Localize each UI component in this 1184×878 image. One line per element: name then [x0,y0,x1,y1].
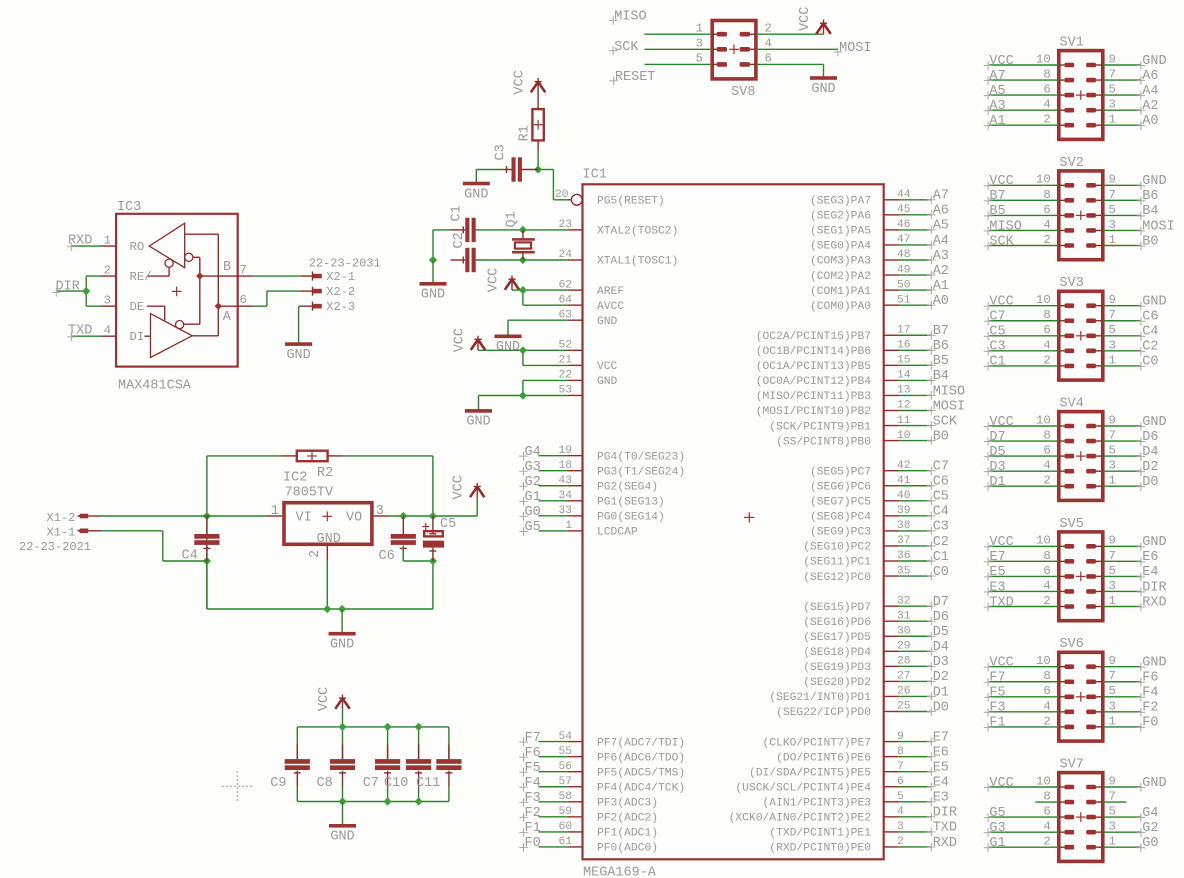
svg-text:MOSI: MOSI [1142,219,1174,234]
IC1 pin 50 (COM1)PA1 [810,279,911,298]
wire net G1 to SV7 [989,846,1059,848]
node F3 label [519,791,541,807]
svg-text:2: 2 [308,550,323,558]
IC1 pin 39 (SEG8)PC4 [810,505,911,524]
svg-text:VCC: VCC [597,361,618,373]
SV1 name label [1060,36,1084,51]
node B7 label [984,189,1006,205]
IC1 pin 37 (SEG10)PC2 [803,535,910,554]
IC1 pin 54 PF7(ADC7/TDI) [558,731,685,750]
wire net F1 to SV6 [989,726,1059,728]
node G1 label [519,490,541,506]
wire net A1 to SV1 [989,124,1059,126]
wire GND stem [341,609,343,632]
IC1 pin 7 (DI/SDA/PCINT5)PE5 [749,761,904,780]
node C2 label [927,535,949,551]
svg-text:F1: F1 [989,716,1005,731]
wire net G3 [539,470,568,472]
svg-text:DIR: DIR [56,279,80,294]
IC1 pin 44 (SEG3)PA7 [810,189,911,208]
IC1 pin 36 (SEG11)PC1 [803,550,911,569]
node GND label [1137,656,1167,672]
svg-text:8: 8 [1043,67,1050,81]
ground symbol pins 22/53 [465,409,492,430]
SV6 pin 4 [1043,699,1074,714]
node GND label [1137,295,1167,311]
svg-text:A3: A3 [989,99,1005,114]
node D1 label [927,685,949,701]
wire net E5 [899,771,931,773]
svg-text:(SEG5)PC7: (SEG5)PC7 [810,466,871,478]
wire net B6 from SV2 [1103,199,1141,201]
svg-text:22-23-2021: 22-23-2021 [19,540,91,554]
svg-text:(RXD/PCINT0)PE0: (RXD/PCINT0)PE0 [769,843,871,855]
svg-text:SCK: SCK [933,414,958,429]
svg-text:C4: C4 [933,505,949,520]
svg-text:X2-1: X2-1 [326,270,355,284]
node RXD label [67,233,92,251]
wire net C0 [899,575,931,577]
junction bypass top rail [384,723,392,731]
SV2 name label [1060,156,1084,171]
junction VCC pins 52/21 [519,346,527,354]
SV7 pin 2 [1043,835,1074,850]
node E4 label [927,776,949,792]
svg-text:(SEG18)PD4: (SEG18)PD4 [803,647,871,659]
IC2 pin 2 [308,546,328,560]
svg-text:D3: D3 [933,655,949,670]
svg-text:F1: F1 [525,821,541,836]
svg-text:VCC: VCC [989,54,1013,69]
wire net F6 [539,756,568,758]
IC1 pin 40 (SEG7)PC5 [810,490,911,509]
wire net A2 [899,274,931,276]
node MOSI label [1137,219,1175,235]
ground symbol for C3 [463,182,490,203]
node D3 label [927,655,949,671]
node C4 label [1137,325,1159,341]
svg-text:D5: D5 [933,625,949,640]
svg-text:B6: B6 [1142,189,1158,204]
IC1 pin 63 GND [558,309,617,328]
IC1 pin 34 PG1(SEG13) [558,490,664,509]
svg-text:C7: C7 [933,460,949,475]
IC1 pin 46 (SEG1)PA5 [810,219,911,238]
wire net VCC to SV1 [989,64,1059,66]
wire net SCK [899,425,931,427]
SV5 pin 6 [1043,564,1074,579]
IC3 name label [117,200,141,215]
SV4 pin 6 [1043,444,1074,459]
node VCC label [984,415,1014,431]
svg-text:G5: G5 [989,806,1005,821]
SV6 pin 3 [1086,699,1116,714]
node A4 label [1137,84,1159,100]
wire net E7 [899,741,931,743]
IC1 pin 19 PG4(T0/SEG23) [558,445,685,464]
IC1 pin 6 (USCK/SCL/PCINT4)PE4 [735,776,904,795]
IC1 pin 43 PG2(SEG4) [558,475,658,494]
node B label [223,260,231,275]
IC2 pin name VI [296,511,312,526]
node RXD label [1137,595,1167,611]
SV4 pin 9 [1086,413,1116,428]
svg-text:D2: D2 [933,670,949,685]
wire net B6 [899,349,931,351]
svg-text:A1: A1 [933,279,949,294]
svg-text:SV1: SV1 [1060,36,1084,51]
wire net A7 to SV1 [989,79,1059,81]
svg-text:C3: C3 [989,340,1005,355]
node C1 label [927,550,949,566]
node A3 label [927,249,949,265]
svg-text:E5: E5 [989,565,1005,580]
SV4 pin 5 [1086,444,1116,459]
SV5 pin 3 [1086,579,1116,594]
wire net D6 from SV4 [1103,440,1141,442]
IC3 pin 3 DE [101,293,144,314]
svg-text:Q1: Q1 [505,211,520,227]
wire net F7 to SV6 [989,681,1059,683]
svg-text:8: 8 [1043,188,1050,202]
svg-text:GND: GND [330,638,354,653]
IC1 value label MEGA169-A [583,865,657,878]
svg-text:(OC1A/PCINT13)PB5: (OC1A/PCINT13)PB5 [756,361,871,373]
junction C5 top [429,512,437,520]
node E4 label [1137,565,1159,581]
SV6 name label [1060,637,1084,652]
node D6 label [1137,430,1159,446]
node D6 label [927,610,949,626]
wire X2-3 to ground [299,306,301,343]
wire net C2 [899,545,931,547]
junction internal node A [215,302,222,309]
wire net D3 [899,665,931,667]
wire net D1 to SV4 [989,485,1059,487]
SV2 pin 1 [1086,233,1116,248]
svg-text:(TXD/PCINT1)PE1: (TXD/PCINT1)PE1 [769,828,871,840]
wire net XTAL2 (IC1 pin 23 row) [476,229,568,231]
VCC label for AREF/AVCC [487,268,502,292]
svg-text:A6: A6 [933,204,949,219]
wire net C4 from SV3 [1103,335,1141,337]
svg-text:B6: B6 [933,339,949,354]
SV1 pin 2 [1043,113,1074,128]
wire net GND from SV6 [1103,666,1141,668]
IC3 DI internal stub [145,335,151,337]
node E7 label [927,730,949,746]
VCC supply symbol bypass bank [335,695,349,710]
IC3 internal net A upper [185,234,238,336]
svg-text:X2-2: X2-2 [326,285,355,299]
svg-text:(CLKO/PCINT7)PE7: (CLKO/PCINT7)PE7 [763,737,871,749]
node MISO label [984,219,1022,235]
svg-text:4: 4 [104,323,111,337]
svg-text:7805TV: 7805TV [285,486,335,501]
SV3 name label [1060,276,1084,291]
svg-text:(COM1)PA1: (COM1)PA1 [810,286,871,298]
wire net G0 from SV7 [1103,846,1141,848]
svg-text:2: 2 [104,263,111,277]
IC3 DE internal connection [147,306,165,320]
svg-text:SV5: SV5 [1060,517,1084,532]
wire net E5 to SV5 [989,575,1059,577]
wire VCC stem to top rail [342,709,344,727]
IC2 pin name GND [317,532,341,547]
wire net F7 [539,741,568,743]
wire net F6 from SV6 [1103,681,1141,683]
wire net D7 [899,605,931,607]
ground symbol power section [329,632,356,653]
svg-text:GND: GND [1142,415,1166,430]
ground symbol pin 63 [495,335,522,356]
ground symbol X2-3 [285,342,312,363]
node F1 label [519,821,541,837]
svg-text:(SEG19)PD3: (SEG19)PD3 [803,662,871,674]
IC1 pin 53 (no name) [558,385,582,397]
svg-text:MISO: MISO [614,10,646,25]
svg-text:(SEG7)PC5: (SEG7)PC5 [810,497,871,509]
wire net A2 from SV1 [1103,109,1141,111]
wire net C5 to SV3 [989,335,1059,337]
wire net F5 to SV6 [989,696,1059,698]
wire IC1 pins 22/53 to ground [479,380,568,410]
IC1 pin 30 (SEG17)PD5 [803,625,911,644]
connector X2 pin X2-1 [300,270,355,284]
wire net C7 to SV3 [989,320,1059,322]
svg-text:VCC: VCC [989,535,1013,550]
capacitor C9 [285,727,310,802]
svg-text:C8: C8 [317,776,333,791]
IC1 pin 60 PF1(ADC1) [558,821,658,840]
svg-text:A0: A0 [1142,114,1158,129]
resistor R1 [532,93,543,150]
wire X1-1 to C4 bottom node [101,531,207,561]
node GND label [1137,415,1167,431]
wire net D2 [899,680,931,682]
wire net F4 from SV6 [1103,696,1141,698]
wire net D4 from SV4 [1103,455,1141,457]
svg-text:F2: F2 [525,806,541,821]
wire net G4 from SV7 [1103,816,1141,818]
IC1 pin 8 (DO/PCINT6)PE6 [776,746,904,765]
SV7 pin 9 [1086,774,1116,789]
svg-text:(COM3)PA3: (COM3)PA3 [810,256,871,268]
svg-text:E6: E6 [1142,550,1158,565]
svg-text:D0: D0 [933,700,949,715]
svg-text:RE/: RE/ [130,270,152,284]
junction Q1 top [519,226,527,234]
SV7 pin 5 [1086,805,1116,820]
svg-text:C6: C6 [933,475,949,490]
wire net C4 [899,515,931,517]
SV1 pin 3 [1086,98,1116,113]
SV7 pin 10 [1036,774,1074,789]
node A6 label [1137,69,1159,85]
IC2 name label [283,471,307,486]
node F4 label [519,776,541,792]
wire net RESET to SV8 pin5 [644,63,712,65]
svg-text:SV8: SV8 [731,85,755,100]
wire net XTAL1 (IC1 pin 24 row) [476,259,568,261]
SV3 pin 4 [1043,338,1074,353]
node DIR label [1137,580,1167,596]
svg-text:VCC: VCC [989,415,1013,430]
node A2 label [1137,99,1159,115]
svg-text:(MOSI/PCINT10)PB2: (MOSI/PCINT10)PB2 [756,406,871,418]
svg-text:D5: D5 [989,445,1005,460]
svg-text:A5: A5 [933,219,949,234]
node VCC label [984,656,1014,672]
node C3 label [984,340,1006,356]
capacitor C11 [436,727,461,802]
node C1 label [984,355,1006,371]
SV2 pin 10 [1036,173,1074,188]
SV2 pin 2 [1043,233,1074,248]
svg-text:A2: A2 [933,264,949,279]
svg-text:(SEG12)PC0: (SEG12)PC0 [803,572,871,584]
IC2 value label 7805TV [285,486,335,501]
C7 name label [363,776,379,791]
node C5 label [984,325,1006,341]
svg-text:C6: C6 [379,549,395,564]
wire net B7 [899,334,931,336]
C6 name label [379,549,395,564]
svg-text:X1-2: X1-2 [47,511,76,525]
wire net D2 from SV4 [1103,470,1141,472]
IC1 pin 20 PG5(RESET) [555,189,665,208]
SV5 pin 7 [1086,549,1116,564]
wire net RXD [899,846,931,848]
svg-text:(OC2A/PCINT15)PB7: (OC2A/PCINT15)PB7 [756,331,871,343]
wire net G1 [539,500,568,502]
connector SV1 outline [1059,51,1103,140]
svg-text:A5: A5 [989,84,1005,99]
ground symbol for C1/C2 [420,282,447,303]
svg-text:(SEG22/ICP)PD0: (SEG22/ICP)PD0 [776,707,871,719]
IC1 pin 3 (TXD/PCINT1)PE1 [769,821,904,840]
node A2 label [927,264,949,280]
IC1 pin 2 (RXD/PCINT0)PE0 [769,836,903,855]
wire net D0 [899,711,931,713]
node MISO label [927,384,965,400]
SV1 pin 6 [1043,83,1074,98]
wire net G5 to SV7 [989,816,1059,818]
SV4 pin 3 [1086,459,1116,474]
svg-text:F6: F6 [1142,671,1158,686]
IC1 pin 59 PF2(ADC2) [558,806,658,825]
svg-text:DE: DE [130,300,145,314]
capacitor C2 [450,248,475,272]
node D4 label [1137,445,1159,461]
wire SV8 pin6 to ground [756,64,824,77]
SV8 pin 1 [696,21,727,36]
wire net RXD from SV5 [1103,606,1141,608]
node SCK label [609,40,640,55]
svg-text:F2: F2 [1142,701,1158,716]
node E3 label [927,791,949,807]
svg-text:(COM0)PA0: (COM0)PA0 [810,301,871,313]
wire net VCC to SV6 [989,666,1059,668]
wire net F3 [539,801,568,803]
svg-text:(SEG8)PC4: (SEG8)PC4 [810,512,871,524]
svg-text:AVCC: AVCC [597,301,624,313]
svg-text:C7: C7 [989,310,1005,325]
wire net SCK to SV8 pin3 [644,48,712,50]
junction bypass top rail [415,723,423,731]
junction R1/C3 node [534,165,542,173]
node C3 label [927,520,949,536]
IC1 pin 62 AREF [558,279,624,298]
connector SV2 outline [1059,171,1103,260]
svg-text:3: 3 [376,504,384,519]
wire net B5 to SV2 [989,214,1059,216]
svg-text:VCC: VCC [798,7,813,31]
node E6 label [927,745,949,761]
C9 name label [270,776,286,791]
svg-text:RXD: RXD [1142,595,1166,610]
IC1 pin 32 (SEG15)PD7 [803,595,910,614]
svg-text:(SEG6)PC6: (SEG6)PC6 [810,481,871,493]
svg-text:MOSI: MOSI [839,41,871,56]
svg-text:VCC: VCC [989,656,1013,671]
wire net A4 [899,244,931,246]
node F1 label [984,716,1006,732]
C1 name label [450,205,465,221]
junction bypass bottom rail [384,797,392,805]
junction DIR node [82,287,90,295]
SV5 pin 10 [1036,534,1074,549]
node MOSI label [927,399,965,415]
wire net E3 [899,801,931,803]
IC1 pin 64 AVCC [558,294,624,313]
svg-text:A3: A3 [933,249,949,264]
svg-text:D4: D4 [933,640,949,655]
svg-text:MOSI: MOSI [933,399,965,414]
wire net G4 [539,455,568,457]
SV2 pin 3 [1086,218,1116,233]
C10 name label [384,776,408,791]
svg-text:C1: C1 [933,550,949,565]
resistor R2 [282,451,343,462]
svg-text:A0: A0 [933,294,949,309]
node A0 label [927,294,949,310]
SV7 pin 6 [1043,805,1074,820]
SV3 pin 10 [1036,293,1074,308]
SV2 pin 6 [1043,203,1074,218]
node TXD label [67,324,92,342]
SV2 pin 8 [1043,188,1074,203]
IC1 pin 58 PF3(ADC3) [558,791,658,810]
IC1 name label [583,167,607,182]
wire net MISO to SV8 pin1 [644,33,712,35]
node VCC label [984,535,1014,551]
svg-text:(SEG20)PD2: (SEG20)PD2 [803,677,871,689]
svg-text:IC2: IC2 [283,471,307,486]
node G5 label [519,520,541,536]
node D3 label [984,460,1006,476]
node C0 label [1137,355,1159,371]
wire IC3 pin7 to X2-1 [253,275,301,277]
svg-text:F5: F5 [525,761,541,776]
node F7 label [984,671,1006,687]
IC1 pin 21 VCC [558,355,617,374]
junction pins 22/53 [519,391,527,399]
node A label [223,310,232,325]
svg-text:2: 2 [765,21,772,35]
VCC supply symbol for pins 52/21 [471,336,485,351]
wire net VCC to pins 52/21 [478,350,567,365]
